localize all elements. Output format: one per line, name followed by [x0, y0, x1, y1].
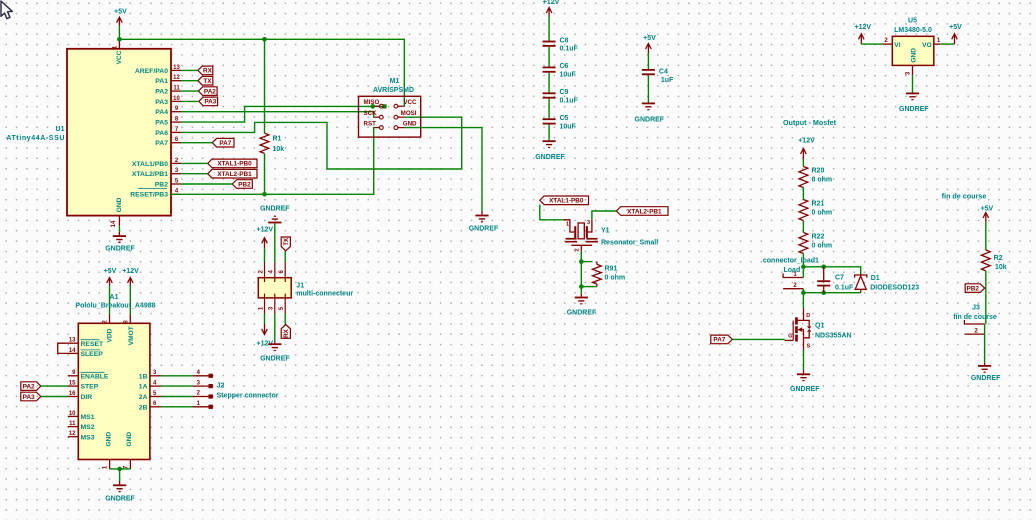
global label PB2: [232, 180, 252, 189]
wire load bottom to Q1 drain: [802, 293, 804, 309]
J2 reference: [217, 383, 225, 390]
A1 value Pololu_Breakout_A4988: [75, 302, 155, 309]
U1 pin 10 (PA3): [155, 96, 181, 106]
capacitor C6: [543, 67, 556, 73]
wire R2 to J3 pin1: [985, 271, 987, 324]
U1 pin 8 (PA5): [155, 117, 181, 127]
connector J2 pin 1: [193, 401, 213, 409]
GNDREF text under caps column: [535, 154, 565, 161]
junction load node bottom: [801, 290, 806, 295]
section title fin de course: [942, 191, 987, 200]
+5V power label at A1: [104, 268, 117, 275]
svg-text:RX: RX: [283, 328, 290, 337]
J1 pin 5 stub: [279, 298, 285, 314]
svg-text:1: 1: [566, 222, 569, 228]
wire R22 to load node: [802, 254, 804, 267]
connector load pin 1: [783, 272, 803, 278]
svg-text:fin de course: fin de course: [942, 191, 987, 200]
ground GNDREF under caps column: [543, 140, 556, 148]
global label RX (J1): [281, 325, 290, 339]
wire load bottom rail: [803, 292, 860, 294]
wire pin13 to RX label: [181, 69, 198, 71]
svg-text:GNDREF: GNDREF: [260, 355, 290, 362]
wire +5V arrow to VCC rail: [118, 26, 120, 40]
J1 pin 3 stub: [269, 298, 275, 314]
svg-text:0 ohm: 0 ohm: [605, 275, 626, 282]
wire +5V to VDD pin: [109, 286, 111, 315]
svg-text:ENABLE: ENABLE: [81, 373, 109, 380]
J3 reference: [972, 304, 980, 311]
C8 reference: [560, 37, 569, 44]
svg-text:U1: U1: [56, 126, 65, 133]
M1 pin RST: [364, 120, 384, 129]
svg-text:TX: TX: [203, 78, 212, 85]
svg-text:D1: D1: [871, 275, 880, 282]
wire C4 to ground: [647, 75, 649, 102]
svg-text:AVRISPSMD: AVRISPSMD: [373, 87, 414, 94]
svg-text:1A: 1A: [139, 384, 148, 391]
global label PA2: [198, 87, 217, 96]
A1 pin 5 (2A): [139, 391, 161, 401]
global label PA7: [212, 138, 234, 147]
A1 reference: [110, 294, 119, 301]
A1 pin 16 (DIR): [68, 391, 92, 401]
wire +5V rail to AVRISP VCC drop: [119, 39, 404, 106]
GNDREF text under U1: [105, 246, 135, 253]
svg-text:13: 13: [173, 65, 180, 71]
wire C8 to C6: [548, 47, 550, 67]
resistor R21: [799, 200, 808, 221]
connector J3 pin 2: [964, 328, 984, 334]
svg-text:GNDREF: GNDREF: [971, 375, 1001, 382]
wire XTAL2-PB1 to resonator pin3: [592, 211, 617, 219]
connector_load1 reference text: [763, 258, 819, 265]
wire R21 to R22: [802, 221, 804, 233]
GNDREF text under C4: [635, 116, 665, 123]
wire pin10 to PA3 label: [181, 100, 199, 102]
svg-text:MS3: MS3: [81, 434, 95, 441]
U1 pin 9 (PA4): [155, 106, 181, 116]
svg-text:XTAL2/PB1: XTAL2/PB1: [132, 171, 168, 178]
A1 GND pin 7 stub: [123, 460, 130, 470]
svg-text:VCC: VCC: [403, 99, 417, 106]
svg-text:0 ohm: 0 ohm: [812, 209, 833, 216]
global label TX (J1): [281, 237, 290, 251]
svg-text:+12V: +12V: [855, 24, 872, 31]
svg-text:14: 14: [69, 348, 76, 354]
svg-text:connector_load1: connector_load1: [763, 258, 819, 265]
svg-text:Resonator_Small: Resonator_Small: [601, 240, 658, 247]
R91 value 0 ohm: [605, 275, 626, 282]
+12V power symbol at caps: [546, 8, 552, 17]
A1 pin 10 (MS1): [68, 411, 95, 421]
module A1 Pololu_Breakout_A4988 body: [78, 323, 150, 459]
svg-text:C6: C6: [560, 63, 569, 70]
svg-text:PB2: PB2: [155, 181, 168, 188]
GNDREF text under resonator: [567, 310, 597, 317]
svg-text:Pololu_Breakout_A4988: Pololu_Breakout_A4988: [75, 302, 155, 309]
U1 pin 12 (PA1): [155, 75, 181, 85]
svg-text:1: 1: [197, 401, 201, 407]
capacitor C4: [642, 69, 655, 75]
GNDREF text above J1: [260, 206, 290, 213]
A1 pin 4 (1A): [139, 381, 161, 391]
svg-text:2: 2: [197, 391, 201, 397]
svg-text:GND: GND: [105, 432, 112, 447]
wire R91 bottom to gnd wire: [581, 286, 597, 288]
svg-text:RESET: RESET: [81, 341, 105, 348]
svg-text:11: 11: [173, 86, 180, 92]
R1 reference: [273, 136, 282, 143]
wire PA3 label to DIR: [41, 396, 68, 398]
svg-text:PA7: PA7: [219, 140, 231, 147]
svg-text:VCC: VCC: [116, 50, 123, 64]
svg-text:6: 6: [279, 269, 285, 273]
svg-text:PA7: PA7: [713, 337, 725, 344]
Y1 reference: [601, 228, 610, 235]
svg-text:XTAL1-PB0: XTAL1-PB0: [217, 161, 252, 168]
GNDREF text under Q1: [790, 386, 820, 393]
+5V power label at J3: [980, 206, 993, 213]
+12V power symbol below J1 (inverted): [262, 324, 268, 335]
+12V power symbol at mosfet: [801, 149, 807, 159]
connector J2 pin 4: [193, 370, 213, 378]
svg-text:XTAL2-PB1: XTAL2-PB1: [627, 208, 662, 215]
A1 VMOT pin stub: [123, 315, 130, 324]
junction C7 bottom: [821, 290, 826, 295]
wire A1 2A to J2: [161, 396, 193, 398]
svg-text:GNDREF: GNDREF: [899, 106, 929, 113]
global label XTAL1-PB0: [208, 159, 257, 168]
svg-text:MOSI: MOSI: [401, 110, 417, 117]
ground GNDREF under J3: [978, 363, 991, 373]
connector J3 pin 1: [964, 320, 984, 324]
U5 value LM3480-5.0: [894, 27, 932, 34]
wire load node to pin1: [802, 267, 804, 278]
svg-text:GNDREF: GNDREF: [635, 116, 665, 123]
D1 reference: [871, 275, 880, 282]
svg-text:D: D: [806, 313, 810, 319]
connector J1 body: [258, 278, 291, 298]
svg-text:1: 1: [937, 38, 941, 44]
svg-text:0.1uF: 0.1uF: [560, 97, 579, 104]
R22 value 0 ohm: [812, 242, 833, 249]
ground GNDREF under C4: [642, 103, 655, 111]
svg-text:PA2: PA2: [155, 89, 168, 96]
svg-text:GNDREF: GNDREF: [790, 386, 820, 393]
wire J1 pin5 to RX label: [284, 314, 286, 325]
ground GNDREF above J1 (inverted): [268, 216, 281, 224]
svg-text:GNDREF: GNDREF: [567, 310, 597, 317]
wire J1 pin6 to TX label: [284, 251, 286, 262]
svg-text:10k: 10k: [995, 264, 1007, 271]
M1 pin SCK: [364, 110, 384, 119]
svg-text:5: 5: [279, 306, 285, 310]
U1 GND pin 14 stub: [111, 216, 120, 228]
svg-text:10k: 10k: [273, 146, 285, 153]
A1 GND pin 1 stub: [103, 460, 110, 470]
svg-text:MS1: MS1: [81, 414, 95, 421]
J3 value fin de course: [953, 314, 997, 321]
svg-text:3: 3: [269, 306, 275, 310]
svg-text:10uF: 10uF: [560, 72, 577, 79]
wire +5V to C4: [647, 53, 649, 70]
crystal Y1 Resonator_Small: [564, 219, 598, 251]
wire +12V to VMOT pin: [129, 286, 131, 315]
J1 pin 4 stub: [269, 262, 275, 278]
svg-text:10: 10: [173, 96, 180, 102]
svg-text:15: 15: [69, 381, 76, 387]
svg-text:14: 14: [111, 220, 117, 227]
wire J1 pin2 to +12V: [264, 248, 266, 262]
svg-text:DIODESOD123: DIODESOD123: [870, 284, 919, 291]
junction resonator gnd bottom: [579, 284, 584, 289]
J2 value Stepper connector: [217, 393, 279, 400]
ground GNDREF under Q1: [797, 371, 810, 382]
svg-text:Stepper connector: Stepper connector: [217, 393, 279, 400]
svg-text:10: 10: [69, 411, 76, 417]
svg-text:+5V: +5V: [949, 24, 962, 31]
+12V power label at U5: [855, 24, 872, 31]
wire Q1 source to ground: [803, 350, 805, 371]
wire U1 GND pin to ground: [118, 226, 120, 232]
capacitor C9: [543, 92, 556, 98]
+12V power symbol at A1 VMOT: [128, 278, 134, 286]
svg-text:PA2: PA2: [23, 383, 35, 390]
svg-text:+12V: +12V: [257, 226, 274, 233]
wire C6 to C9: [548, 73, 550, 93]
R2 value 10k: [995, 264, 1007, 271]
+5V power symbol at C4: [646, 44, 652, 53]
+5V power symbol (top left): [117, 17, 123, 26]
svg-text:+12V: +12V: [798, 138, 815, 145]
svg-text:+5V: +5V: [643, 35, 656, 42]
svg-text:AREF/PA0: AREF/PA0: [135, 68, 168, 75]
+5V power label at C4: [643, 35, 656, 42]
svg-text:3: 3: [906, 71, 912, 75]
+5V power symbol at A1 VDD: [107, 278, 113, 286]
wire +5V to R2: [985, 222, 987, 250]
M1 pin MISO: [364, 99, 384, 108]
svg-text:R2: R2: [994, 255, 1003, 262]
svg-text:RESET/PB3: RESET/PB3: [130, 192, 168, 199]
ground GNDREF under A1: [113, 481, 126, 492]
junction +5V rail at R1 column: [262, 37, 267, 42]
+12V label below J1: [257, 340, 274, 347]
ground GNDREF under U5: [906, 93, 919, 101]
svg-text:VO: VO: [922, 42, 932, 49]
svg-text:C4: C4: [659, 69, 668, 76]
svg-text:VDD: VDD: [107, 328, 114, 342]
wire pin11 to PA2 label: [181, 90, 198, 92]
wire XTAL1-PB0 to resonator pin1: [540, 205, 564, 220]
svg-text:4: 4: [269, 269, 275, 273]
svg-text:M1: M1: [390, 78, 400, 85]
C4 value 1uF: [661, 77, 674, 84]
A1 pin 13 (RESET): [68, 338, 104, 348]
junction A1 GND: [117, 467, 122, 472]
+12V power symbol above J1: [262, 238, 268, 248]
svg-text:GNDREF: GNDREF: [105, 246, 135, 253]
U5 pin GND: [906, 48, 918, 75]
svg-text:GNDREF: GNDREF: [105, 496, 135, 503]
C7 value 0.1uF: [835, 285, 854, 292]
svg-text:PB2: PB2: [238, 181, 251, 188]
svg-text:J3: J3: [972, 304, 980, 311]
global label PA7 (mosfet gate): [711, 335, 733, 344]
global label PA2 (A1 STEP): [21, 382, 41, 391]
transistor Q1 NDS355AN: [785, 309, 812, 350]
svg-text:+12V: +12V: [122, 268, 139, 275]
+5V power label at U5 out: [949, 24, 962, 31]
svg-text:J2: J2: [217, 383, 225, 390]
wire J1 pin4 to GNDREF up: [274, 223, 276, 262]
A1 pin 15 (STEP): [68, 381, 99, 391]
junction MISO wire: [370, 104, 375, 109]
svg-text:A1: A1: [110, 294, 119, 301]
Q1 value NDS355AN: [815, 332, 852, 339]
global label PA3 (A1 DIR): [21, 392, 41, 401]
wire A1 2B to J2: [161, 406, 193, 408]
svg-text:16: 16: [69, 391, 76, 397]
svg-text:GND: GND: [116, 197, 123, 212]
svg-text:S: S: [806, 343, 810, 349]
wire MOSI-GND? AVRISP GND to ground: [405, 128, 482, 211]
wire J1 pin3 to ground: [274, 314, 276, 342]
U1 pin name VCC: [116, 50, 123, 64]
wire +12V to U5 VI: [861, 43, 882, 45]
svg-text:GND: GND: [126, 432, 133, 447]
svg-text:RST: RST: [364, 120, 377, 127]
svg-text:2: 2: [884, 38, 888, 44]
wire pin3 to XTAL2-PB1 label: [181, 173, 208, 175]
svg-text:DIR: DIR: [81, 394, 93, 401]
svg-text:PA7: PA7: [155, 140, 168, 147]
svg-text:C7: C7: [835, 275, 844, 282]
A1 pin name VMOT: [128, 326, 135, 345]
connector load pin 2: [783, 283, 803, 289]
U1 pin 13 (AREF/PA0): [135, 65, 181, 75]
svg-text:PA3: PA3: [204, 99, 216, 106]
svg-text:0.1uF: 0.1uF: [835, 285, 854, 292]
svg-text:Output - Mosfet: Output - Mosfet: [783, 118, 837, 127]
regulator U5 body: [892, 36, 934, 65]
svg-text:R91: R91: [605, 265, 618, 272]
wire J1 pin1 to +12V down: [264, 314, 266, 324]
R20 value 0 ohm: [812, 176, 833, 183]
svg-text:TX: TX: [283, 237, 290, 246]
A1 pin 3 (1B): [139, 370, 161, 380]
wire U5 VO to +5V: [940, 43, 954, 45]
GNDREF text below J1: [260, 355, 290, 362]
A1 pin 6 (2B): [139, 401, 161, 411]
GNDREF text under U5: [899, 106, 929, 113]
U5 reference: [908, 18, 917, 25]
svg-text:GNDREF: GNDREF: [535, 154, 565, 161]
capacitor C7: [817, 267, 830, 293]
+5V power symbol at U5 out: [952, 34, 958, 44]
svg-text:Load: Load: [784, 267, 801, 274]
U1 reference label: [56, 126, 65, 133]
svg-text:1: 1: [113, 45, 119, 49]
wire C5 to ground: [548, 125, 550, 141]
+5V power label text (top left): [114, 9, 127, 16]
U1 pin 2 (XTAL1/PB0): [132, 158, 181, 168]
wire resonator gnd down: [580, 262, 582, 294]
svg-text:12: 12: [69, 431, 76, 437]
svg-text:C5: C5: [560, 115, 569, 122]
svg-text:R21: R21: [812, 200, 825, 207]
global label XTAL1-PB0 (resonator): [540, 196, 589, 205]
svg-text:+5V: +5V: [114, 9, 127, 16]
wire PA5 to MISO: [181, 106, 373, 122]
svg-text:+12V: +12V: [543, 0, 560, 6]
R1 value 10k: [273, 146, 285, 153]
wire +5V to R1 top: [264, 39, 266, 133]
C6 reference: [560, 63, 569, 70]
svg-text:3: 3: [197, 380, 201, 386]
A1 pin name GND left: [105, 432, 112, 447]
svg-text:R20: R20: [812, 167, 825, 174]
svg-text:U5: U5: [908, 18, 917, 25]
svg-text:GNDREF: GNDREF: [260, 206, 290, 213]
wire load top rail: [803, 267, 860, 274]
resistor R22: [799, 233, 808, 254]
+12V power label at mosfet: [798, 138, 815, 145]
svg-text:PA5: PA5: [155, 120, 168, 127]
svg-text:RX: RX: [203, 68, 213, 75]
C5 value 10uF: [560, 123, 577, 130]
svg-text:GND: GND: [403, 120, 417, 127]
C7 reference: [835, 275, 844, 282]
svg-text:PA1: PA1: [155, 78, 168, 85]
U1 pin 4 (RESET/PB3): [130, 189, 181, 199]
svg-text:3: 3: [587, 220, 590, 226]
section title Output - Mosfet: [783, 118, 837, 127]
wire PA4 to SCK: [181, 112, 374, 118]
U1 pin 3 (XTAL2/PB1): [132, 168, 181, 178]
U1 pin name GND: [116, 197, 123, 212]
R21 reference: [812, 200, 825, 207]
svg-text:STEP: STEP: [81, 384, 99, 391]
svg-text:C9: C9: [560, 89, 569, 96]
junction resonator gnd top: [579, 259, 584, 264]
svg-text:PA3: PA3: [155, 99, 168, 106]
svg-text:4: 4: [197, 370, 201, 376]
svg-text:SCK: SCK: [364, 110, 378, 117]
U5 pin VI: [882, 38, 900, 49]
J1 value multi-connecteur: [296, 291, 353, 298]
svg-text:J1: J1: [296, 282, 304, 289]
M1 reference: [390, 78, 400, 85]
resistor R91: [593, 262, 602, 287]
A1 pin 9 (ENABLE): [68, 370, 109, 380]
R21 value 0 ohm: [812, 209, 833, 216]
svg-text:R22: R22: [812, 233, 825, 240]
C4 reference: [659, 69, 668, 76]
R22 reference: [812, 233, 825, 240]
ground GNDREF for AVRISP: [475, 211, 488, 222]
A1 pin name VDD: [107, 328, 114, 342]
A1 VDD pin stub: [103, 315, 110, 324]
svg-text:2B: 2B: [139, 404, 148, 411]
ground GNDREF under resonator: [575, 294, 588, 305]
svg-text:PA3: PA3: [23, 394, 35, 401]
svg-text:fin de course: fin de course: [953, 314, 997, 321]
C8 value 0.1uF: [560, 46, 579, 53]
svg-text:SLEEP: SLEEP: [81, 351, 104, 358]
svg-text:NDS355AN: NDS355AN: [815, 332, 852, 339]
